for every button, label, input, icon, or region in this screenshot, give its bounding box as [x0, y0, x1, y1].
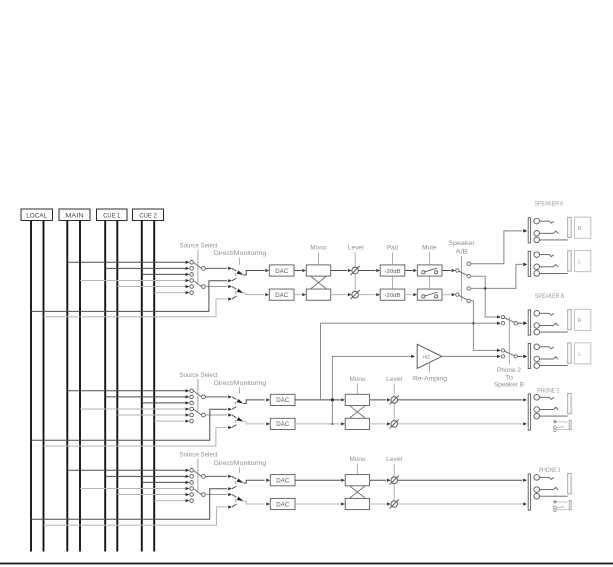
wire A/B switch throw B-R to phone2/speakerB switch [471, 301, 501, 352]
wire row3 level to PHONE 1 jack R [398, 502, 527, 505]
wire row1 pad to mute L [405, 269, 417, 272]
wire bus R feed to row3 source-select contact 6 [154, 500, 187, 502]
wire A/B switch throw B-L to phone2/speakerB switch [471, 276, 501, 318]
mono matrix row2 [345, 394, 369, 429]
jack PHONE 1 [528, 474, 571, 511]
svg-text:HiZ: HiZ [423, 355, 431, 360]
level pot row3 (dual gang) [390, 464, 399, 509]
svg-text:MAIN: MAIN [65, 213, 84, 220]
label Level row1 [348, 245, 364, 252]
jack SPEAKER B R [524, 310, 572, 336]
label Level row2 [386, 376, 402, 383]
jack SPEAKER A R [524, 217, 572, 243]
bus LOCAL R [43, 221, 45, 552]
label PHONE 1 [539, 468, 562, 474]
junction dot B-L wire over A-R wire [484, 287, 487, 290]
label Mono row2 [350, 376, 367, 394]
svg-text:R: R [578, 226, 582, 232]
svg-text:L: L [578, 352, 581, 358]
source-select switch row3 [186, 459, 206, 503]
label SPEAKER B [535, 294, 565, 300]
label Phone 2 To Speaker B [494, 367, 524, 389]
source-select switch row1 [186, 250, 206, 295]
wire row1 level to pad L [358, 269, 380, 272]
mute switch row1 R [417, 289, 442, 300]
svg-text:Speaker B: Speaker B [494, 382, 524, 389]
wire bus R feed to row1 source-select contact 4 [80, 279, 187, 281]
mono matrix row1 [306, 265, 330, 300]
svg-text:L: L [578, 260, 581, 266]
mute switch row1 L [417, 265, 442, 276]
label Source Select row1 [180, 243, 218, 250]
wire bus L feed to row2 source-select contact 2 [105, 396, 187, 398]
DAC row3 R [270, 498, 295, 509]
svg-text:Speaker: Speaker [448, 240, 475, 247]
label Direct/Monitoring row1 [214, 250, 267, 265]
wire row3 mono to level L [370, 479, 391, 482]
wire row2 DAC R to mono matrix [295, 422, 345, 425]
DAC row1 L [269, 265, 294, 276]
wire bus L feed to row1 source-select contact 1 [67, 261, 186, 263]
svg-text:DAC: DAC [276, 397, 290, 404]
svg-text:Level: Level [386, 376, 402, 383]
wire bus R feed to row1 source-select contact 5 [117, 286, 186, 288]
svg-text:SPEAKER A: SPEAKER A [535, 201, 564, 207]
svg-text:SPEAKER B: SPEAKER B [535, 294, 565, 300]
svg-text:Re-Amping: Re-Amping [413, 376, 448, 383]
label Level row3 [386, 456, 402, 463]
jack SPEAKER B L [524, 343, 572, 369]
wire LOCAL R to row2 monitor switch [44, 427, 228, 446]
svg-text:R: R [578, 318, 582, 324]
wire bus R feed to row2 source-select contact 4 [80, 408, 187, 410]
jack label box R [575, 217, 591, 238]
wire bus L feed to row1 source-select contact 3 [142, 273, 187, 275]
junction dot re-amp tap at phone2 L [331, 398, 334, 401]
wire LOCAL R to row3 monitor switch [44, 507, 228, 525]
switch Direct/Monitoring row1 L [228, 267, 269, 283]
wire row2 mono to level R [370, 422, 391, 425]
wire re-amping output to speakerB switch [442, 355, 501, 358]
wire row3 level to PHONE 1 jack L [398, 479, 527, 482]
wire row1 level to pad R [358, 293, 380, 296]
wire row1 DAC L to mono matrix [294, 269, 306, 272]
wire bus R feed to row1 source-select contact 6 [154, 292, 187, 294]
label Mute [422, 245, 437, 289]
svg-text:DAC: DAC [275, 292, 289, 299]
source box CUE 2 [133, 209, 164, 221]
label Mono row3 [350, 456, 367, 474]
bus LOCAL L [30, 221, 32, 552]
label PHONE 2 [537, 388, 560, 394]
label Pad [387, 245, 399, 289]
label Direct/Monitoring row2 [214, 380, 267, 394]
bus CUE1 R [116, 221, 118, 552]
bus CUE2 R [153, 221, 155, 552]
svg-text:Phone 2: Phone 2 [497, 367, 522, 374]
switch Direct/Monitoring row2 R [228, 413, 270, 429]
svg-text:Direct/Monitoring: Direct/Monitoring [214, 250, 267, 257]
wire bus L feed to row3 source-select contact 2 [105, 475, 187, 477]
svg-text:To: To [505, 374, 514, 381]
bus CUE2 L [141, 221, 143, 552]
bus MAIN L [66, 221, 68, 552]
svg-text:Mono: Mono [350, 456, 367, 463]
label Mono row1 [310, 245, 327, 265]
switch Direct/Monitoring row1 R [228, 285, 269, 301]
svg-text:Source Select: Source Select [180, 243, 218, 250]
op-amp Re-Amping HiZ buffer [417, 344, 442, 372]
wire row1 pad to mute R [405, 293, 417, 296]
jack label box L [575, 251, 591, 272]
source-select switch row2 [186, 379, 206, 423]
wire A/B switch throw A-R to SPEAKER A L jack [471, 263, 527, 289]
svg-text:Direct/Monitoring: Direct/Monitoring [214, 460, 267, 467]
wire bus R feed to row3 source-select contact 4 [80, 487, 187, 489]
DAC row2 L [270, 394, 295, 405]
label Source Select row2 [180, 372, 218, 379]
svg-text:PHONE 2: PHONE 2 [537, 388, 560, 394]
svg-text:Source Select: Source Select [180, 451, 218, 458]
wire row1 source-select out L to monitor switch [205, 267, 227, 269]
wire row3 source-select out L to monitor switch [205, 475, 227, 477]
svg-text:Mono: Mono [350, 376, 367, 383]
wire row2 DAC L to mono matrix [295, 398, 345, 401]
wire row3 DAC L to mono matrix [295, 479, 345, 482]
level pot row1 (dual gang) [351, 252, 360, 299]
source box CUE 1 [97, 209, 128, 221]
label Direct/Monitoring row3 [214, 460, 267, 473]
svg-text:CUE 1: CUE 1 [103, 213, 121, 220]
wire bus L feed to row2 source-select contact 3 [142, 402, 187, 404]
label Re-Amping [413, 376, 448, 383]
svg-text:DAC: DAC [276, 421, 290, 428]
wire row2 mono to level L [370, 398, 391, 401]
wire row1 mute to speaker A/B switch L [442, 269, 455, 272]
jack PHONE 2 [528, 394, 571, 431]
svg-text:LOCAL: LOCAL [26, 213, 48, 220]
svg-text:Direct/Monitoring: Direct/Monitoring [214, 380, 267, 387]
headphone plug icon [554, 420, 572, 431]
svg-text:Mono: Mono [310, 245, 327, 252]
svg-text:Mute: Mute [422, 245, 437, 252]
wire LOCAL L to row2 monitor switch [31, 409, 227, 440]
switch Direct/Monitoring row3 R [228, 493, 270, 509]
svg-text:DAC: DAC [276, 478, 290, 485]
svg-text:Level: Level [386, 456, 402, 463]
switch Phone2-to-SpeakerB upper (R) [501, 315, 527, 325]
bottom border rule [0, 563, 613, 565]
wire LOCAL R to row1 monitor switch [44, 299, 228, 317]
junction dot B-R wire with phone2 tap wire [472, 322, 475, 325]
pad -20dB row1 L [380, 265, 405, 276]
wire row1 mono to level L [331, 269, 352, 272]
wire bus L feed to row1 source-select contact 2 [105, 267, 187, 269]
bus MAIN R [79, 221, 81, 552]
wire row2 level to PHONE 2 jack L [398, 398, 527, 401]
wire row2 source-select out L to monitor switch [205, 396, 227, 398]
wire row1 mono to level R [331, 293, 352, 296]
level pot row2 (dual gang) [390, 384, 399, 429]
wire row1 source-select out R to monitor switch [205, 286, 227, 288]
jack label box L [575, 343, 591, 364]
junction dot re-amp tap at phone2 R [331, 423, 333, 425]
switch Speaker A/B [448, 240, 475, 302]
pad -20dB row1 R [380, 289, 405, 300]
switch Direct/Monitoring row2 L [228, 395, 270, 411]
wire bus R feed to row3 source-select contact 5 [117, 494, 186, 496]
bus CUE1 L [104, 221, 106, 552]
svg-text:DAC: DAC [275, 268, 289, 275]
label SPEAKER A [535, 201, 564, 207]
svg-text:PHONE 1: PHONE 1 [539, 468, 562, 474]
headphone plug icon [554, 500, 572, 511]
wire bus L feed to row3 source-select contact 3 [142, 481, 187, 483]
link line phone2/speakerB switch pair [508, 317, 510, 365]
wire bus L feed to row3 source-select contact 1 [67, 469, 186, 471]
svg-text:Pad: Pad [387, 245, 399, 252]
wire row3 source-select out R to monitor switch [205, 494, 227, 496]
DAC row1 R [269, 289, 294, 300]
svg-text:-20dB: -20dB [385, 293, 401, 299]
svg-text:A/B: A/B [456, 249, 468, 256]
wire row2 level to PHONE 2 jack R [398, 422, 527, 425]
wire row1 DAC R to mono matrix [294, 293, 306, 296]
source box MAIN [59, 209, 90, 221]
svg-text:Level: Level [348, 245, 364, 252]
svg-text:DAC: DAC [276, 501, 290, 508]
jack SPEAKER A L [524, 251, 572, 277]
wire row1 mute to speaker A/B switch R [442, 293, 455, 296]
DAC row3 L [270, 475, 295, 486]
wire phone2 L/R tap to re-amping input [332, 355, 415, 424]
wire bus R feed to row2 source-select contact 6 [154, 420, 187, 422]
wire bus R feed to row2 source-select contact 5 [117, 414, 186, 416]
jack label box R [575, 309, 591, 330]
DAC row2 R [270, 418, 295, 429]
svg-text:CUE 2: CUE 2 [139, 213, 157, 220]
wire bus L feed to row2 source-select contact 1 [67, 390, 186, 392]
wire A/B switch throw A-L to SPEAKER A R jack [471, 229, 527, 263]
wire row2 source-select out R to monitor switch [205, 414, 227, 416]
mono matrix row3 [345, 475, 369, 510]
wire phone2 L tap to speakerB switch [321, 322, 501, 400]
switch Direct/Monitoring row3 L [228, 475, 270, 491]
wire LOCAL L to row3 monitor switch [31, 489, 227, 519]
wire LOCAL L to row1 monitor switch [31, 281, 227, 312]
wire row3 mono to level R [370, 502, 391, 505]
source box LOCAL [21, 209, 53, 221]
switch Phone2-to-SpeakerB lower (L) [501, 349, 527, 358]
svg-text:Source Select: Source Select [180, 372, 218, 379]
label Source Select row3 [180, 451, 218, 458]
svg-text:-20dB: -20dB [385, 269, 401, 275]
wire row3 DAC R to mono matrix [295, 502, 345, 505]
